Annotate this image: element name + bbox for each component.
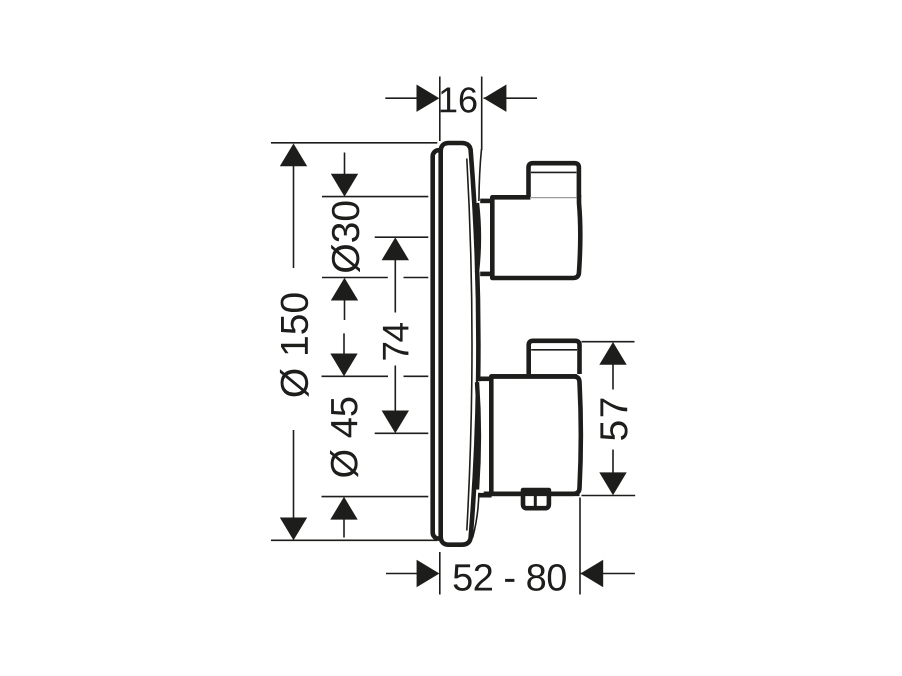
dim 52-80 left arrow	[417, 560, 440, 587]
dim Ø30 arrow down	[331, 174, 358, 197]
dim Ø150 label	[280, 293, 309, 396]
dim 16 label	[441, 87, 477, 113]
upper handle hidden edge (gray)	[531, 196, 577, 198]
plate inner crease line	[467, 159, 472, 531]
dim Ø45 label	[330, 398, 358, 478]
dim Ø45 bottom shaft	[343, 518, 345, 538]
dim 74 arrow down	[382, 411, 409, 434]
dim Ø30 arrow up	[331, 278, 358, 301]
upper stem top edge	[480, 199, 492, 204]
dim 52-80 right tail	[580, 573, 635, 575]
dim Ø150 line upper shaft	[293, 146, 295, 268]
lower boss crescent	[477, 382, 479, 489]
escutcheon main plate	[441, 143, 479, 545]
escutcheon back plate	[433, 150, 455, 538]
lower handle body	[491, 376, 581, 493]
upper handle cap	[529, 163, 579, 197]
dim 52-80 left extension line	[439, 552, 441, 595]
dim 16 left tail	[385, 97, 424, 99]
tab divider	[534, 492, 537, 506]
dim 57 arrow down	[599, 472, 626, 495]
dim Ø150 arrow up	[280, 144, 307, 167]
dome silhouette upper tail	[479, 149, 482, 201]
dim 57 bottom extension line	[582, 495, 636, 497]
dim Ø45 arrow up	[330, 497, 357, 520]
dim 74 label	[383, 323, 409, 360]
dim Ø30 bottom shaft	[344, 299, 346, 320]
dim Ø45 top shaft	[343, 333, 345, 356]
dim Ø150 bottom extension line	[271, 539, 437, 541]
dim 52-80 left tail	[386, 573, 424, 575]
dim Ø45 top extension line left part	[322, 375, 389, 377]
upper boss crescent	[477, 203, 479, 272]
dim Ø30 bottom extension line	[322, 277, 388, 279]
dome silhouette lower tail	[473, 491, 479, 538]
dim 57 upper shaft	[612, 363, 614, 390]
dim 57 top extension line	[582, 341, 635, 343]
upper cap inner line	[531, 171, 576, 173]
dim 16 right tail	[484, 97, 537, 99]
dim 52-80 right arrow	[580, 560, 603, 587]
lower stem top edge	[480, 376, 492, 381]
lower body top edge redraw	[491, 374, 577, 379]
dim 57 label	[600, 399, 627, 440]
body bottom line over tab	[484, 491, 580, 496]
dim 16 left arrow	[417, 85, 440, 112]
lower cap inner line	[531, 349, 577, 351]
wall plane / right extension line of 16 dim	[481, 77, 483, 151]
dim Ø150 arrow down	[280, 518, 307, 541]
dim Ø150 line lower shaft	[293, 430, 295, 538]
dim 57 arrow up	[599, 342, 626, 365]
dim Ø45 top extension line right part	[404, 375, 429, 377]
dim 52-80 right extension line	[579, 498, 581, 595]
dim 57 lower shaft	[612, 450, 614, 475]
upper stem bottom edge	[480, 272, 492, 277]
dim 16 left extension line	[439, 77, 441, 142]
dim 16 right arrow	[484, 85, 507, 112]
upper handle body	[492, 197, 579, 278]
bottom tab	[523, 490, 549, 508]
dim Ø45 bottom extension line	[322, 496, 429, 498]
dim 74 bottom extension line	[375, 432, 429, 434]
dim Ø30 bottom extension line right part	[404, 277, 429, 279]
lower stem fill	[478, 381, 492, 493]
dim 74 top extension line	[375, 236, 429, 238]
lower handle cap	[529, 341, 580, 374]
dim Ø30 label	[331, 201, 360, 272]
dim Ø30 top shaft	[344, 153, 346, 179]
dim Ø30 top extension line	[322, 196, 428, 198]
upper stem fill	[478, 203, 492, 271]
dim Ø45 arrow down	[330, 354, 357, 377]
dim 74 arrow up	[382, 237, 409, 260]
dim 74 lower shaft	[394, 366, 396, 413]
dim Ø150 top extension line	[271, 142, 437, 144]
lower stem bottom edge	[479, 493, 492, 498]
dim 74 upper shaft	[394, 258, 396, 313]
dim 52-80 label	[454, 564, 566, 591]
